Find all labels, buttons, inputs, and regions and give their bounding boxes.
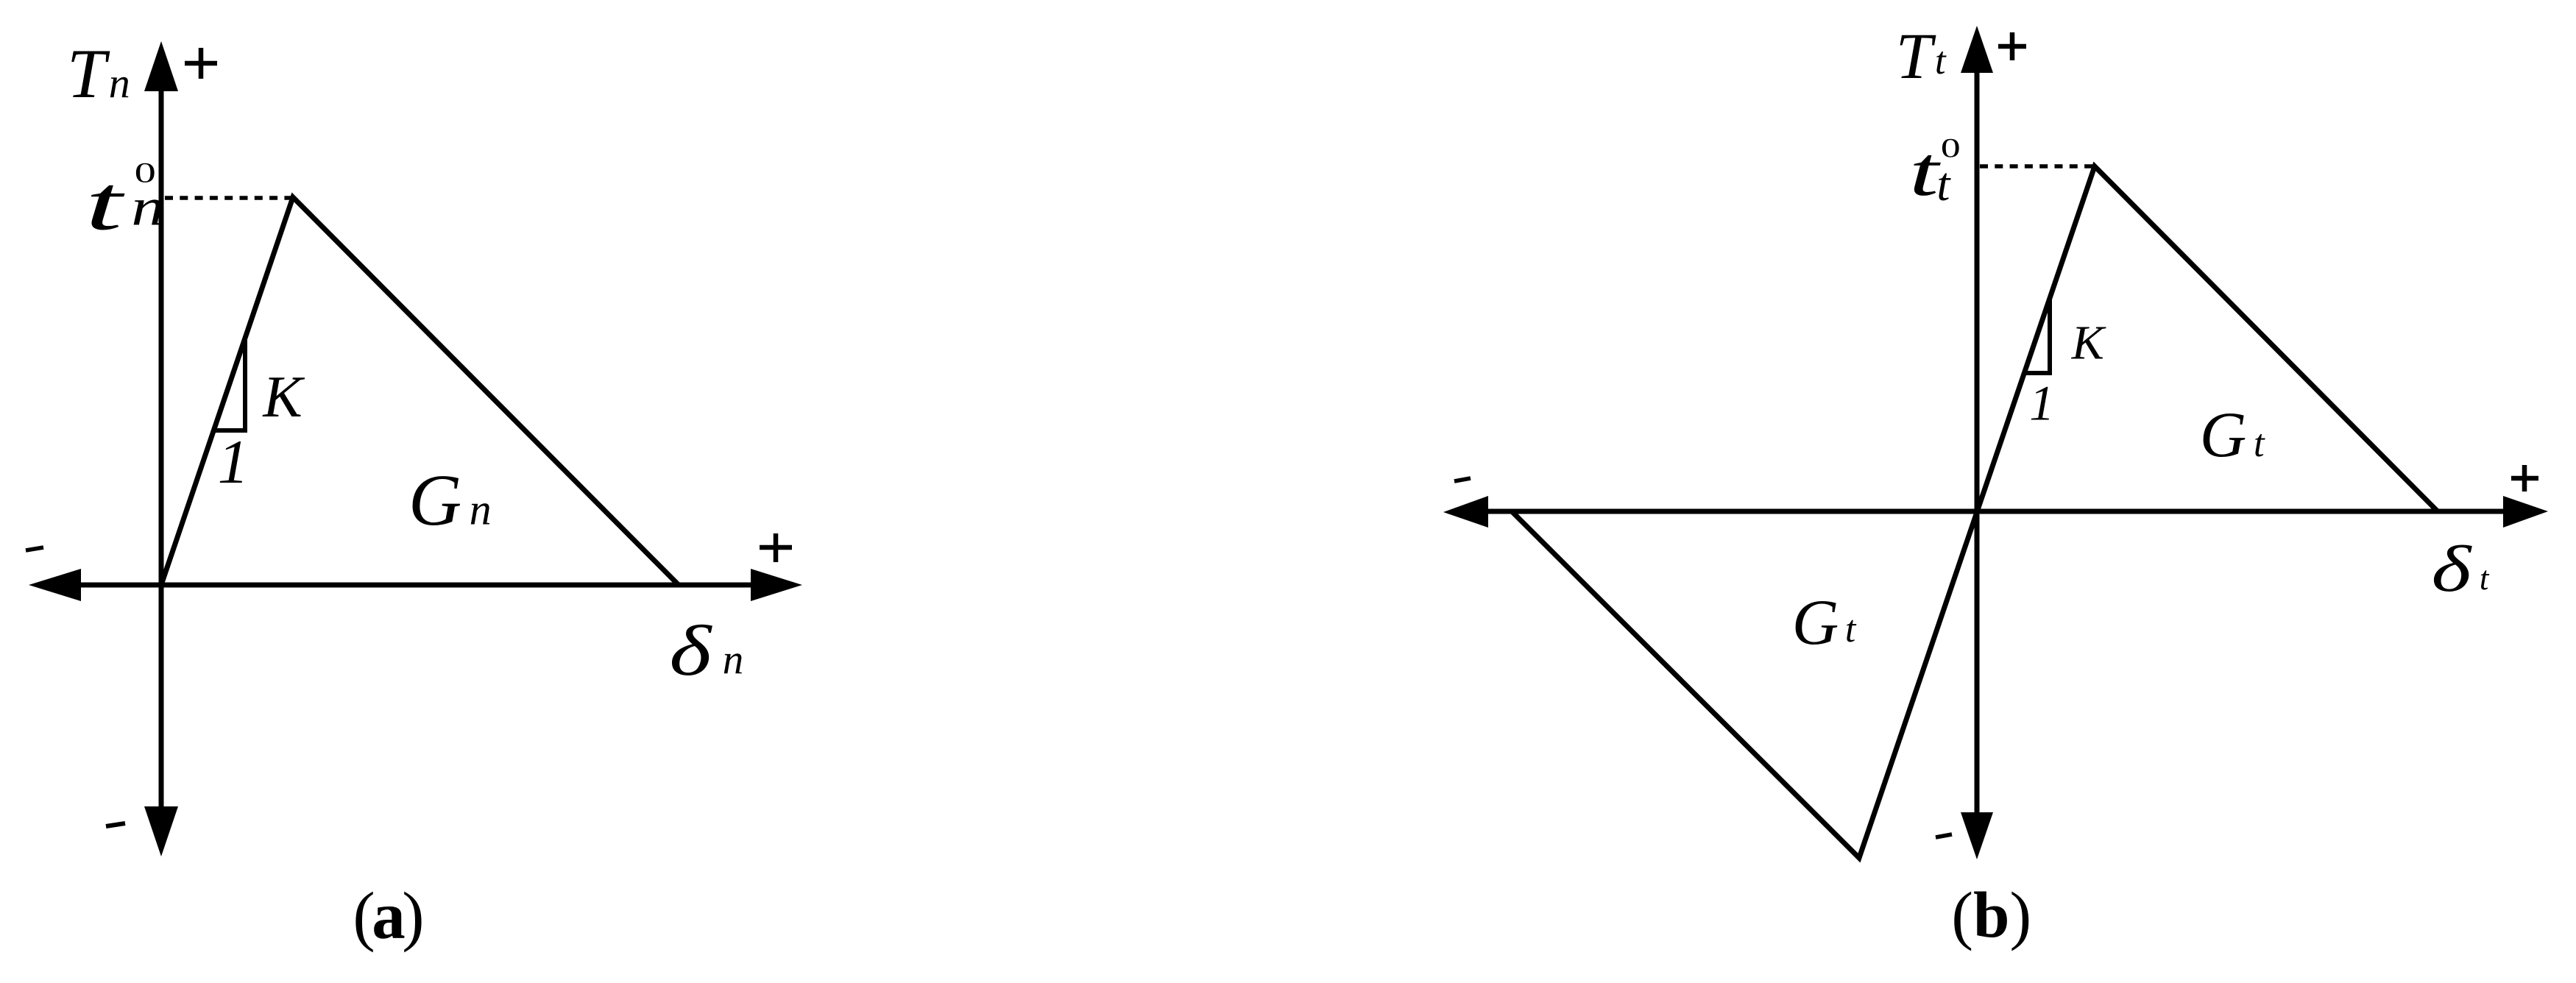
svg-text:δ: δ [2431,533,2472,606]
x-axis right arrowhead (b) [2503,496,2548,528]
svg-text:G: G [2200,400,2247,471]
minus sign bottom (a) [106,823,125,826]
plus sign top (a) [185,48,217,79]
svg-text:G: G [1792,587,1839,659]
svg-text:K: K [262,365,305,430]
minus sign left (a) [26,547,43,550]
bilinear traction curve (a) [161,197,679,585]
svg-text:t: t [1936,158,1951,211]
svg-text:t: t [85,160,126,246]
svg-text:T: T [67,35,110,113]
plus sign right (a) [760,533,792,562]
y-axis bottom arrowhead (a) [144,806,178,856]
svg-text:t: t [1845,608,1857,650]
y-axis shaft (b) [1975,68,1980,817]
x-axis right arrowhead (a) [751,569,802,601]
x-axis shaft (b) [1487,509,2505,514]
slope marker K (b) [2024,298,2050,373]
x-axis left arrowhead (a) [29,569,81,601]
svg-text:n: n [109,59,130,107]
minus sign bottom (b) [1936,834,1952,837]
svg-text:(a): (a) [353,879,422,953]
y-axis shaft (a) [159,87,164,811]
x-axis left arrowhead (b) [1443,496,1488,528]
svg-text:1: 1 [2029,375,2054,431]
svg-text:δ: δ [669,611,713,691]
svg-text:n: n [470,486,492,534]
svg-text:1: 1 [218,427,250,497]
svg-text:n: n [131,177,164,236]
svg-text:G: G [408,459,461,541]
y-axis bottom arrowhead (b) [1961,812,1993,859]
shear traction curve (b) [1512,166,2438,858]
svg-text:t: t [2480,560,2490,597]
dashed guide line t_n^0 (a) [165,196,291,200]
svg-text:t: t [1935,40,1947,82]
svg-text:t: t [2254,422,2265,465]
svg-text:T: T [1896,21,1936,93]
minus sign left (b) [1454,478,1471,481]
svg-text:(b): (b) [1951,879,2031,951]
y-axis top arrowhead (a) [144,41,178,91]
svg-text:K: K [2071,316,2106,370]
x-axis shaft (a) [77,583,754,588]
svg-text:n: n [723,637,744,684]
slope marker K (a) [213,340,245,430]
dashed guide line t_t^0 (b) [1980,164,2094,168]
plus sign top (b) [1998,32,2026,60]
y-axis top arrowhead (b) [1961,26,1993,73]
plus sign right (b) [2511,465,2538,491]
